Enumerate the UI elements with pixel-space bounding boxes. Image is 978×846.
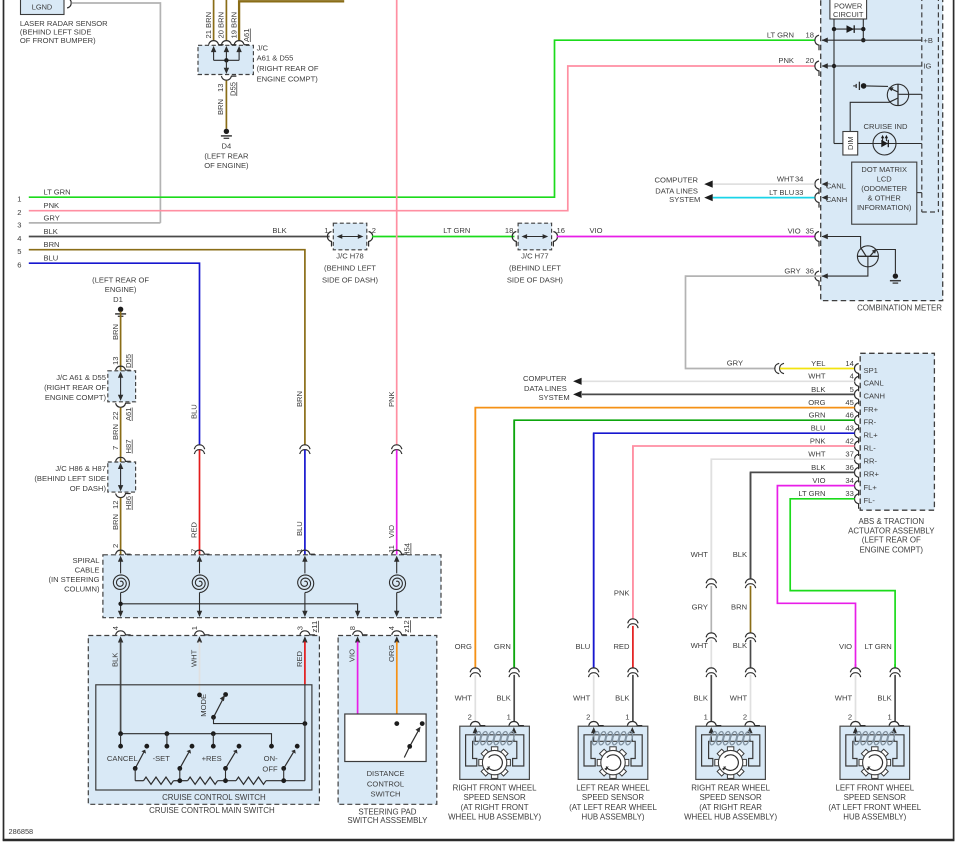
Q2 collector to ground [877, 250, 896, 274]
ABS pin 4 CANL [855, 376, 859, 391]
svg-text:2: 2 [848, 712, 852, 721]
meter pin 20 [815, 61, 819, 76]
svg-text:4: 4 [111, 626, 120, 630]
svg-text:GRY: GRY [727, 358, 743, 367]
wire BRN pin 20 [225, 0, 227, 41]
steering arrows [355, 636, 360, 642]
svg-text:BLU: BLU [295, 521, 304, 536]
meter pin 34 CANL [815, 179, 819, 194]
wire RED continues black inside [304, 685, 306, 724]
svg-text:STEERING PAD: STEERING PAD [358, 807, 416, 816]
svg-text:22: 22 [111, 412, 120, 420]
svg-text:1: 1 [324, 226, 328, 235]
svg-text:36: 36 [806, 266, 814, 275]
svg-text:BRN: BRN [216, 99, 225, 115]
wire BRN to spiral cable pin 2 [120, 498, 122, 555]
svg-text:CABLE: CABLE [75, 566, 100, 575]
svg-text:BLK: BLK [272, 226, 286, 235]
svg-text:FL+: FL+ [864, 483, 878, 492]
spiral pin arrow [302, 556, 307, 562]
svg-text:43: 43 [845, 424, 853, 433]
svg-text:A61: A61 [242, 28, 251, 42]
svg-text:J/C H77: J/C H77 [521, 252, 548, 261]
ABS & traction actuator box [860, 353, 934, 510]
wire WHT ABS pin37 [711, 459, 854, 579]
connector at LGND [67, 0, 71, 8]
spiral coil [120, 561, 122, 574]
meter inner connector dashes [921, 0, 923, 212]
svg-text:20: 20 [806, 56, 814, 65]
svg-text:CANH: CANH [826, 195, 848, 204]
spiral pin arrow [394, 556, 399, 562]
wire BLU line 6 [29, 263, 200, 445]
wire PNK line 2 to meter pin 20 [29, 66, 815, 211]
wire IG to DIM [834, 143, 843, 145]
transistor Q2 wiring [822, 237, 861, 248]
switch CANCEL [135, 752, 144, 768]
svg-text:(RIGHT REAR OF: (RIGHT REAR OF [44, 383, 106, 392]
svg-text:LGND: LGND [32, 3, 53, 12]
J/C H86-H87 internal double arrow [120, 468, 122, 487]
svg-text:VIO: VIO [839, 642, 852, 651]
DIM box [843, 132, 858, 156]
junction connector J/C H77 [518, 223, 552, 250]
svg-text:BLK: BLK [44, 227, 58, 236]
svg-text:OF DASH): OF DASH) [70, 484, 107, 493]
svg-text:18: 18 [505, 226, 513, 235]
switch pin arc [392, 631, 407, 635]
svg-text:WHT: WHT [573, 694, 591, 703]
svg-text:CRUISE CONTROL SWITCH: CRUISE CONTROL SWITCH [162, 793, 266, 802]
svg-text:(AT RIGHT REAR: (AT RIGHT REAR [699, 803, 762, 812]
svg-text:12: 12 [111, 501, 120, 509]
spiral cable box [103, 555, 441, 618]
svg-text:PNK: PNK [810, 436, 826, 445]
svg-text:33: 33 [795, 188, 803, 197]
svg-text:BRN: BRN [44, 240, 60, 249]
svg-text:RED: RED [190, 521, 199, 538]
svg-text:46: 46 [845, 411, 853, 420]
svg-text:RL-: RL- [864, 443, 877, 452]
svg-text:ENGINE COMPT): ENGINE COMPT) [45, 393, 107, 402]
wire LT GRN H78 to H77 [372, 236, 515, 238]
spiral pin arc at x=199.5 [195, 550, 210, 554]
svg-text:BRN: BRN [295, 391, 304, 407]
spiral coil [396, 561, 398, 574]
svg-text:4: 4 [17, 234, 21, 243]
svg-text:1: 1 [17, 195, 21, 204]
svg-text:VIO: VIO [788, 227, 801, 236]
illumination symbol [853, 85, 856, 87]
distance switch contacts [394, 721, 399, 726]
wire BLK ABS pin 5 [582, 393, 855, 395]
svg-text:SIDE OF DASH): SIDE OF DASH) [322, 276, 379, 285]
svg-text:LT GRN: LT GRN [443, 226, 470, 235]
transistor Q2 [857, 246, 878, 267]
svg-text:2: 2 [586, 712, 590, 721]
svg-text:33: 33 [845, 489, 853, 498]
svg-text:COMPUTER: COMPUTER [523, 374, 567, 383]
pin arc below J/C top [221, 76, 236, 80]
svg-text:BLK: BLK [111, 653, 120, 667]
svg-text:PNK: PNK [778, 56, 794, 65]
svg-text:LT GRN: LT GRN [44, 188, 71, 197]
pin arc below [116, 403, 131, 407]
cruise ind LED [873, 132, 896, 155]
switch pin arc [116, 631, 131, 635]
svg-text:RL+: RL+ [864, 431, 879, 440]
svg-text:BLU: BLU [190, 404, 199, 419]
wire LT BLU pin33 [713, 197, 815, 199]
svg-text:GRY: GRY [692, 603, 708, 612]
wire LT GRN ABS pin33 [790, 499, 895, 668]
IG wire [822, 65, 922, 67]
svg-text:ORG: ORG [808, 398, 825, 407]
svg-text:(BEHIND LEFT: (BEHIND LEFT [324, 264, 376, 273]
sensor1 left chain [474, 408, 476, 668]
svg-text:BLK: BLK [694, 694, 708, 703]
inline connector GRY/YEL [775, 363, 779, 373]
svg-text:GRY: GRY [784, 266, 800, 275]
svg-text:ABS & TRACTION: ABS & TRACTION [858, 517, 924, 526]
cruise inner arrows [118, 636, 123, 642]
svg-text:6: 6 [17, 261, 21, 270]
svg-text:RIGHT REAR WHEEL: RIGHT REAR WHEEL [691, 784, 770, 793]
svg-text:2: 2 [17, 208, 21, 217]
right front wheel speed sensor [460, 726, 530, 779]
svg-text:DATA LINES: DATA LINES [524, 384, 567, 393]
wire lamp to transistor [866, 85, 888, 88]
svg-text:2: 2 [111, 544, 120, 548]
wire PNK ABS pin42 [633, 446, 855, 619]
svg-text:-SET: -SET [153, 754, 171, 763]
ABS pin 42 RL- [855, 441, 859, 456]
svg-text:WHT: WHT [691, 550, 709, 559]
svg-text:J/C H78: J/C H78 [336, 252, 363, 261]
inline connector BLU/RED [194, 445, 204, 449]
svg-text:(LEFT REAR: (LEFT REAR [204, 152, 249, 161]
svg-text:RIGHT FRONT WHEEL: RIGHT FRONT WHEEL [453, 784, 537, 793]
svg-text:SP1: SP1 [864, 366, 878, 375]
wire VIO ABS pin34 [777, 486, 855, 668]
svg-text:VIO: VIO [348, 649, 357, 662]
sensor2 left chain [593, 433, 595, 668]
svg-text:ACTUATOR ASSEMBLY: ACTUATOR ASSEMBLY [848, 526, 935, 535]
svg-text:14: 14 [845, 359, 853, 368]
spiral exit arrow [302, 611, 307, 617]
switch pin arc [300, 631, 315, 635]
sensor1 right chain [513, 420, 515, 668]
svg-text:H86: H86 [124, 496, 133, 510]
spiral coil [304, 561, 306, 574]
wire VIO pin 8 [357, 642, 359, 715]
svg-text:SPEED SENSOR: SPEED SENSOR [463, 793, 526, 802]
transistor base wire [899, 93, 922, 95]
svg-text:OF ENGINE): OF ENGINE) [204, 161, 249, 170]
junction connector J/C H86 & H87 [108, 462, 136, 492]
svg-text:SPEED SENSOR: SPEED SENSOR [844, 793, 907, 802]
svg-text:BLK: BLK [811, 463, 825, 472]
svg-text:1: 1 [887, 712, 891, 721]
svg-text:LEFT REAR WHEEL: LEFT REAR WHEEL [576, 784, 650, 793]
svg-text:18: 18 [806, 30, 814, 39]
cruise bus [121, 734, 272, 747]
svg-text:(IN STEERING: (IN STEERING [48, 575, 99, 584]
wire BLK pin 4 [120, 642, 122, 734]
wire VIO to spiral pin 11 [396, 450, 398, 555]
svg-text:34: 34 [845, 476, 853, 485]
svg-text:WHT: WHT [691, 641, 709, 650]
switch pin arc [195, 631, 210, 635]
svg-text:7: 7 [111, 446, 120, 450]
svg-text:13: 13 [111, 357, 120, 365]
Q2 emitter to pin 36 [822, 256, 868, 276]
junction connector J/C A61 & D55 top box [198, 45, 253, 74]
svg-text:36: 36 [845, 463, 853, 472]
svg-text:BLK: BLK [615, 694, 629, 703]
svg-text:LEFT FRONT WHEEL: LEFT FRONT WHEEL [835, 784, 914, 793]
resistor R3 [236, 777, 266, 784]
svg-text:WHEEL HUB ASSEMBLY): WHEEL HUB ASSEMBLY) [684, 812, 777, 821]
wire GRY line 3 [29, 222, 161, 224]
svg-text:BLU: BLU [576, 642, 591, 651]
wire VIO H77 to meter pin 35 [557, 236, 815, 238]
svg-text:SWITCH: SWITCH [371, 790, 401, 799]
svg-text:(BEHIND LEFT SIDE: (BEHIND LEFT SIDE [34, 474, 106, 483]
steering pad switch box [338, 636, 437, 805]
svg-text:& OTHER: & OTHER [868, 194, 902, 203]
inline connector PNK/VIO [392, 445, 402, 449]
meter pin 36 [815, 271, 819, 286]
svg-text:CANH: CANH [864, 392, 886, 401]
svg-text:WHT: WHT [455, 694, 473, 703]
svg-text:SYSTEM: SYSTEM [669, 195, 700, 204]
svg-text:OF FRONT BUMPER): OF FRONT BUMPER) [20, 36, 96, 45]
svg-text:(BEHIND LEFT: (BEHIND LEFT [509, 264, 561, 273]
distance control switch inner box [345, 714, 426, 762]
svg-text:WHT: WHT [835, 694, 853, 703]
wire RED pin 3 [304, 642, 306, 685]
right rear wheel speed sensor [696, 726, 766, 779]
svg-text:RR-: RR- [864, 457, 878, 466]
svg-text:D55: D55 [228, 82, 237, 96]
svg-text:WHT: WHT [808, 450, 826, 459]
svg-text:BLU: BLU [811, 424, 826, 433]
pin arc above J/C H86-H87 [116, 457, 131, 461]
svg-text:J/C H86 & H87: J/C H86 & H87 [55, 464, 106, 473]
svg-text:WHT: WHT [190, 649, 199, 667]
LCD link [917, 192, 922, 194]
J/C internal arrows [211, 46, 216, 52]
wire ORG pin 4 [396, 642, 398, 724]
spiral pin arrow [118, 556, 123, 562]
svg-text:SPIRAL: SPIRAL [72, 556, 99, 565]
+B wire [822, 39, 922, 41]
sensor3 right chain [750, 472, 752, 579]
svg-text:GRN: GRN [494, 642, 511, 651]
switch +RES [226, 752, 236, 768]
svg-text:VIO: VIO [812, 476, 825, 485]
wire BLK ABS pin36 [751, 472, 855, 579]
svg-text:INFORMATION): INFORMATION) [857, 203, 912, 212]
svg-text:5: 5 [850, 385, 854, 394]
svg-text:VIO: VIO [387, 525, 396, 538]
svg-text:ORG: ORG [455, 642, 472, 651]
svg-text:PNK: PNK [614, 588, 630, 597]
svg-text:GRN: GRN [809, 411, 826, 420]
svg-text:FR+: FR+ [864, 405, 879, 414]
cruise ind LED wire [858, 143, 922, 145]
laser radar sensor LGND box [21, 0, 65, 15]
svg-text:42: 42 [845, 436, 853, 445]
spiral exit arrow [394, 611, 399, 617]
ground D1 [118, 307, 123, 312]
svg-text:ORG: ORG [387, 645, 396, 662]
svg-text:BRN: BRN [111, 424, 120, 440]
svg-text:SIDE OF DASH): SIDE OF DASH) [507, 276, 564, 285]
wire collector to DIM [850, 102, 889, 131]
inline connector BRN/BLU [300, 445, 310, 449]
svg-text:RED: RED [295, 650, 304, 667]
svg-text:DISTANCE: DISTANCE [367, 769, 405, 778]
svg-text:35: 35 [806, 227, 814, 236]
svg-text:COLUMN): COLUMN) [64, 585, 100, 594]
svg-text:CONTROL: CONTROL [367, 780, 404, 789]
spiral exit arrow [197, 611, 202, 617]
svg-text:21 BRN: 21 BRN [204, 12, 213, 39]
wire ORG ABS pin45 [475, 408, 854, 668]
svg-text:WHT: WHT [808, 372, 826, 381]
J/C A61-D55 internal double arrow [120, 377, 122, 397]
mode switch [197, 693, 202, 698]
svg-text:16: 16 [557, 226, 565, 235]
svg-text:4: 4 [850, 372, 854, 381]
bus exit arrow [355, 611, 360, 617]
sensor4 left chain [855, 664, 857, 668]
svg-text:LT GRN: LT GRN [767, 30, 794, 39]
svg-text:GRY: GRY [44, 213, 60, 222]
svg-text:CIRCUIT: CIRCUIT [833, 10, 864, 19]
svg-text:(AT LEFT REAR WHEEL: (AT LEFT REAR WHEEL [569, 803, 657, 812]
svg-text:SPEED SENSOR: SPEED SENSOR [699, 793, 762, 802]
svg-text:BLU: BLU [44, 254, 59, 263]
svg-text:BLK: BLK [733, 641, 747, 650]
resistor chain wire [135, 780, 143, 782]
svg-text:5: 5 [17, 247, 21, 256]
svg-text:WHEEL HUB ASSEMBLY): WHEEL HUB ASSEMBLY) [448, 812, 541, 821]
bus feeds [120, 734, 122, 747]
wire BRN pin 21 [213, 0, 215, 41]
svg-text:19 BRN: 19 BRN [229, 12, 238, 39]
spiral pin arc at x=120.6 [116, 550, 131, 554]
ABS pin 45 FR+ [855, 403, 859, 418]
wire BRN line 5 [29, 250, 305, 446]
meter pin 35 [815, 232, 819, 247]
svg-text:1: 1 [190, 626, 199, 630]
contact dots [118, 744, 123, 749]
svg-text:(LEFT REAR OF: (LEFT REAR OF [92, 276, 149, 285]
ground in meter [893, 273, 898, 278]
svg-text:LT BLU: LT BLU [769, 188, 794, 197]
sensor2 right chain [632, 446, 634, 619]
sensor3 left chain [710, 459, 712, 579]
wire GRN ABS pin46 [514, 420, 854, 668]
svg-text:(AT RIGHT FRONT: (AT RIGHT FRONT [461, 803, 529, 812]
svg-text:1: 1 [625, 712, 629, 721]
svg-text:LT GRN: LT GRN [865, 642, 892, 651]
svg-text:ENGINE): ENGINE) [105, 285, 137, 294]
power circuit box [830, 0, 867, 19]
wire BRN D1 to J/C A61 & D55 [120, 312, 122, 371]
svg-text:BRN: BRN [731, 603, 747, 612]
spiral coil [199, 561, 201, 574]
svg-text:FR-: FR- [864, 418, 877, 427]
svg-text:BLK: BLK [877, 694, 891, 703]
svg-text:LCD: LCD [877, 174, 893, 183]
svg-text:YEL: YEL [811, 359, 825, 368]
svg-text:(RIGHT REAR OF: (RIGHT REAR OF [257, 64, 319, 73]
svg-text:DOT MATRIX: DOT MATRIX [861, 165, 907, 174]
svg-text:(ODOMETER: (ODOMETER [861, 184, 907, 193]
pin arc below H86-H87 [116, 494, 131, 498]
svg-text:COMBINATION METER: COMBINATION METER [857, 304, 942, 313]
spiral pin arc at x=396.7 [392, 550, 407, 554]
svg-text:WHT: WHT [730, 694, 748, 703]
switch pin arc [353, 631, 368, 635]
svg-text:BLK: BLK [733, 550, 747, 559]
svg-text:11: 11 [387, 545, 396, 553]
ABS pin 36 RR+ [855, 467, 859, 482]
spiral cable ground bus [121, 604, 358, 612]
svg-text:ENGINE COMPT): ENGINE COMPT) [257, 75, 319, 84]
svg-text:J/C A61 & D55: J/C A61 & D55 [56, 373, 106, 382]
svg-text:D4: D4 [222, 142, 232, 151]
svg-text:D55: D55 [124, 354, 133, 368]
spiral pin arc at x=304.9 [300, 550, 315, 554]
svg-text:SPEED SENSOR: SPEED SENSOR [582, 793, 645, 802]
svg-text:HUB ASSEMBLY): HUB ASSEMBLY) [843, 812, 906, 821]
svg-text:20 BRN: 20 BRN [217, 12, 226, 39]
svg-text:3: 3 [295, 626, 304, 630]
svg-text:2: 2 [743, 712, 747, 721]
svg-text:4: 4 [387, 626, 396, 630]
sensor4 right chain [894, 664, 896, 668]
svg-text:CRUISE IND: CRUISE IND [864, 122, 908, 131]
diode [847, 25, 855, 33]
resistor R1 [144, 777, 174, 784]
wire GRY meter to ABS [686, 276, 823, 368]
svg-text:2: 2 [372, 226, 376, 235]
svg-text:A61: A61 [124, 407, 133, 421]
power circuit wiring [833, 19, 835, 144]
ABS pin 14 SP1 [855, 364, 859, 379]
wire RED to spiral pin 7 [199, 450, 201, 555]
svg-text:286858: 286858 [9, 827, 34, 836]
meter pin 18 [815, 35, 819, 50]
svg-text:CRUISE CONTROL MAIN SWITCH: CRUISE CONTROL MAIN SWITCH [149, 806, 275, 815]
wire BRN between J/C boxes [120, 408, 122, 463]
spiral exit arrow [118, 611, 123, 617]
wire WHT pin 1 [199, 642, 201, 695]
ABS pin 46 FR- [855, 415, 859, 430]
svg-text:(LEFT REAR OF: (LEFT REAR OF [862, 536, 921, 545]
svg-text:COMPUTER: COMPUTER [655, 175, 699, 184]
junction connector J/C A61 & D55 (lower) [108, 371, 136, 402]
svg-text:CANL: CANL [826, 181, 846, 190]
svg-text:CANL: CANL [864, 379, 884, 388]
svg-text:PNK: PNK [387, 391, 396, 407]
wire GRY from LGND to line 3 [72, 3, 161, 223]
